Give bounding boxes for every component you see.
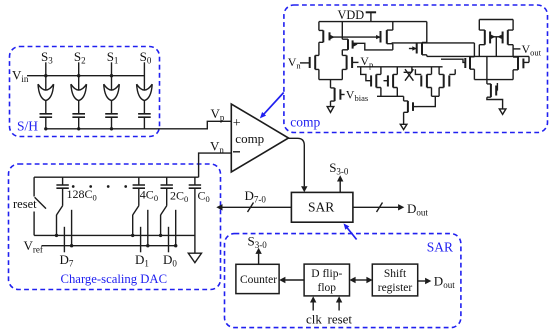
svg-text:Counter: Counter bbox=[240, 274, 277, 286]
svg-text:comp: comp bbox=[290, 115, 320, 130]
svg-text:+: + bbox=[233, 116, 241, 131]
svg-text:SAR: SAR bbox=[308, 200, 334, 215]
svg-text:SAR: SAR bbox=[427, 240, 453, 255]
svg-text:flop: flop bbox=[318, 282, 337, 294]
svg-text:reset: reset bbox=[13, 197, 37, 211]
svg-text:Charge-scaling DAC: Charge-scaling DAC bbox=[61, 272, 168, 286]
svg-text:D flip-: D flip- bbox=[311, 268, 342, 280]
svg-text:register: register bbox=[378, 282, 413, 294]
svg-text:Shift: Shift bbox=[384, 268, 407, 280]
svg-text:reset: reset bbox=[328, 312, 353, 327]
svg-text:128C0: 128C0 bbox=[67, 187, 97, 203]
svg-text:clk: clk bbox=[306, 312, 322, 327]
svg-text:VDD: VDD bbox=[338, 8, 365, 22]
svg-text:comp: comp bbox=[235, 131, 264, 146]
svg-text:S/H: S/H bbox=[17, 119, 38, 134]
